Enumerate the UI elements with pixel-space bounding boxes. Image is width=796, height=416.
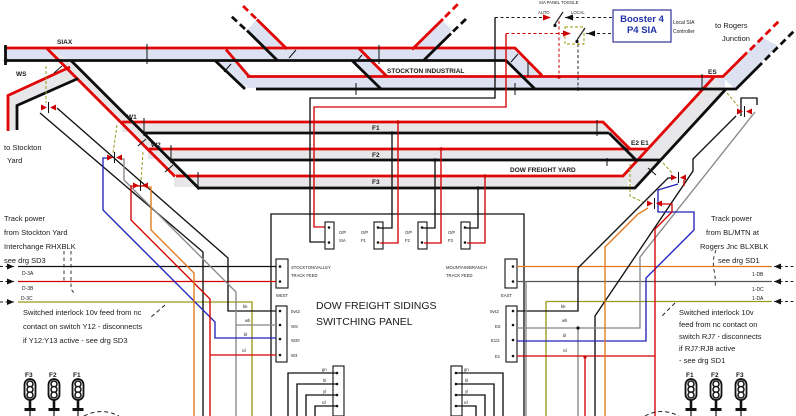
svg-text:F1: F1 bbox=[686, 372, 694, 379]
svg-text:contact on switch Y12 - discon: contact on switch Y12 - disconnects bbox=[23, 322, 142, 331]
svg-text:W2: W2 bbox=[151, 142, 161, 149]
svg-text:Track power: Track power bbox=[711, 214, 752, 223]
svg-text:P4 SIA: P4 SIA bbox=[627, 25, 657, 36]
svg-text:F2: F2 bbox=[372, 152, 380, 159]
svg-text:if Y12:Y13 active - see drg SD: if Y12:Y13 active - see drg SD3 bbox=[23, 336, 128, 345]
svg-text:bl: bl bbox=[465, 378, 468, 383]
svg-text:WEST: WEST bbox=[276, 293, 289, 298]
svg-text:E1/2: E1/2 bbox=[491, 338, 500, 343]
svg-text:to Stockton: to Stockton bbox=[4, 143, 42, 152]
svg-text:Junction: Junction bbox=[722, 34, 750, 43]
svg-text:F3: F3 bbox=[25, 372, 33, 379]
svg-text:LOCAL: LOCAL bbox=[571, 10, 585, 15]
svg-text:W1: W1 bbox=[127, 114, 137, 121]
svg-text:Booster 4: Booster 4 bbox=[620, 14, 665, 25]
svg-text:0vs2: 0vs2 bbox=[291, 309, 301, 314]
svg-text:D-3A: D-3A bbox=[22, 271, 34, 277]
svg-text:wh: wh bbox=[245, 318, 251, 323]
svg-text:W20: W20 bbox=[291, 338, 300, 343]
svg-text:if RJ7:RJ8 active: if RJ7:RJ8 active bbox=[679, 344, 735, 353]
svg-text:Local SIA: Local SIA bbox=[673, 20, 695, 26]
svg-text:bl: bl bbox=[323, 378, 326, 383]
svg-text:O/P: O/P bbox=[448, 230, 455, 235]
svg-text:F1: F1 bbox=[73, 372, 81, 379]
svg-text:O/P: O/P bbox=[361, 230, 368, 235]
svg-text:O/P: O/P bbox=[405, 230, 412, 235]
svg-text:D-3B: D-3B bbox=[22, 286, 34, 292]
svg-text:feed from nc contact on: feed from nc contact on bbox=[679, 320, 757, 329]
svg-text:STOCKTON/VALLEY: STOCKTON/VALLEY bbox=[291, 265, 331, 270]
svg-text:MOUNTAIN/BRANCH: MOUNTAIN/BRANCH bbox=[446, 265, 487, 270]
svg-text:DOW FREIGHT YARD: DOW FREIGHT YARD bbox=[510, 167, 576, 174]
svg-text:from Stockton Yard: from Stockton Yard bbox=[4, 228, 68, 237]
svg-text:SIA PANEL TOGGLE: SIA PANEL TOGGLE bbox=[539, 0, 579, 5]
svg-text:bl: bl bbox=[563, 333, 566, 338]
svg-text:Switched interlock 10v: Switched interlock 10v bbox=[679, 308, 754, 317]
svg-text:SWITCHING PANEL: SWITCHING PANEL bbox=[316, 316, 413, 328]
svg-text:bl: bl bbox=[244, 332, 247, 337]
svg-text:STOCKTON INDUSTRIAL: STOCKTON INDUSTRIAL bbox=[387, 68, 464, 75]
svg-text:from BL/MTN at: from BL/MTN at bbox=[706, 228, 760, 237]
svg-text:F2: F2 bbox=[711, 372, 719, 379]
svg-text:1-DA: 1-DA bbox=[752, 296, 764, 302]
svg-text:see drg SD1: see drg SD1 bbox=[718, 256, 760, 265]
svg-text:1-DB: 1-DB bbox=[752, 272, 764, 278]
svg-text:1-DC: 1-DC bbox=[752, 287, 764, 293]
svg-text:E2 E1: E2 E1 bbox=[631, 140, 649, 147]
svg-text:AUTO: AUTO bbox=[538, 10, 550, 15]
svg-text:see drg SD3: see drg SD3 bbox=[4, 256, 46, 265]
svg-text:E1: E1 bbox=[495, 354, 501, 359]
svg-text:F2: F2 bbox=[49, 372, 57, 379]
svg-text:WS: WS bbox=[291, 324, 298, 329]
svg-text:F1: F1 bbox=[372, 125, 380, 132]
svg-text:0vs2: 0vs2 bbox=[490, 309, 500, 314]
svg-text:SIA: SIA bbox=[339, 238, 346, 243]
svg-text:Interchange RHXBLK: Interchange RHXBLK bbox=[4, 242, 76, 251]
svg-text:Rogers Jnc BLXBLK: Rogers Jnc BLXBLK bbox=[700, 242, 768, 251]
svg-text:F1: F1 bbox=[361, 238, 367, 243]
svg-text:Controller: Controller bbox=[673, 29, 695, 35]
svg-text:F3: F3 bbox=[372, 179, 380, 186]
svg-text:yl: yl bbox=[465, 389, 468, 394]
svg-text:switch RJ7 - disconnects: switch RJ7 - disconnects bbox=[679, 332, 762, 341]
svg-text:Yard: Yard bbox=[7, 156, 22, 165]
svg-text:D-3C: D-3C bbox=[21, 296, 33, 302]
svg-text:TRACK FEED: TRACK FEED bbox=[291, 273, 318, 278]
svg-text:- see drg SD1: - see drg SD1 bbox=[679, 356, 725, 365]
svg-text:WS: WS bbox=[16, 71, 27, 78]
svg-text:F3: F3 bbox=[448, 238, 454, 243]
svg-text:wh: wh bbox=[562, 318, 568, 323]
svg-text:TRACK FEED: TRACK FEED bbox=[446, 273, 473, 278]
svg-text:EAST: EAST bbox=[501, 293, 512, 298]
svg-text:W3: W3 bbox=[291, 353, 298, 358]
svg-text:DOW FREIGHT SIDINGS: DOW FREIGHT SIDINGS bbox=[316, 300, 437, 312]
svg-text:to Rogers: to Rogers bbox=[715, 21, 748, 30]
svg-text:O/P: O/P bbox=[339, 230, 346, 235]
svg-text:Switched interlock 10v feed fr: Switched interlock 10v feed from nc bbox=[23, 308, 142, 317]
svg-text:SIAX: SIAX bbox=[57, 39, 73, 46]
svg-text:ES: ES bbox=[495, 324, 501, 329]
svg-text:gn: gn bbox=[464, 367, 469, 372]
svg-text:ES: ES bbox=[708, 69, 717, 76]
svg-text:gn: gn bbox=[322, 367, 327, 372]
svg-text:F3: F3 bbox=[736, 372, 744, 379]
svg-text:Track power: Track power bbox=[4, 214, 45, 223]
svg-text:yl: yl bbox=[323, 389, 326, 394]
svg-text:F2: F2 bbox=[405, 238, 411, 243]
